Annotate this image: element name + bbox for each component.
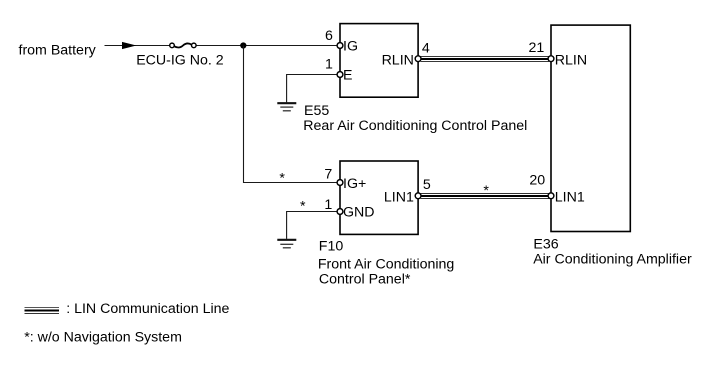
svg-text:F10: F10: [319, 239, 344, 255]
svg-text:RLIN: RLIN: [382, 52, 414, 68]
svg-text:1: 1: [324, 197, 332, 213]
svg-text:5: 5: [423, 177, 431, 193]
svg-text:21: 21: [529, 40, 545, 56]
svg-text:*: *: [300, 199, 306, 215]
svg-text:Rear Air Conditioning Control: Rear Air Conditioning Control Panel: [303, 118, 527, 134]
svg-text:GND: GND: [343, 205, 375, 221]
svg-text:6: 6: [325, 28, 333, 44]
svg-text:E: E: [343, 68, 352, 84]
svg-text:Front Air Conditioning: Front Air Conditioning: [318, 256, 454, 272]
svg-text:Control Panel*: Control Panel*: [319, 272, 411, 288]
svg-text:20: 20: [529, 173, 545, 189]
svg-text:LIN1: LIN1: [555, 190, 585, 206]
svg-text:IG: IG: [343, 39, 358, 55]
svg-text:1: 1: [325, 57, 333, 73]
svg-text:*: *: [279, 171, 285, 187]
svg-text:IG+: IG+: [343, 176, 366, 192]
svg-text:4: 4: [422, 41, 430, 57]
svg-text:: LIN Communication Line: : LIN Communication Line: [66, 301, 229, 317]
svg-text:ECU-IG No. 2: ECU-IG No. 2: [136, 53, 224, 69]
svg-text:from Battery: from Battery: [19, 43, 97, 59]
svg-text:Air Conditioning Amplifier: Air Conditioning Amplifier: [533, 251, 692, 267]
svg-text:*: *: [483, 183, 489, 199]
svg-text:RLIN: RLIN: [555, 52, 587, 68]
svg-text:LIN1: LIN1: [384, 190, 414, 206]
svg-text:7: 7: [324, 166, 332, 182]
svg-text:E36: E36: [533, 237, 558, 253]
svg-text:E55: E55: [304, 103, 329, 119]
svg-text:*: w/o Navigation System: *: w/o Navigation System: [24, 330, 182, 346]
